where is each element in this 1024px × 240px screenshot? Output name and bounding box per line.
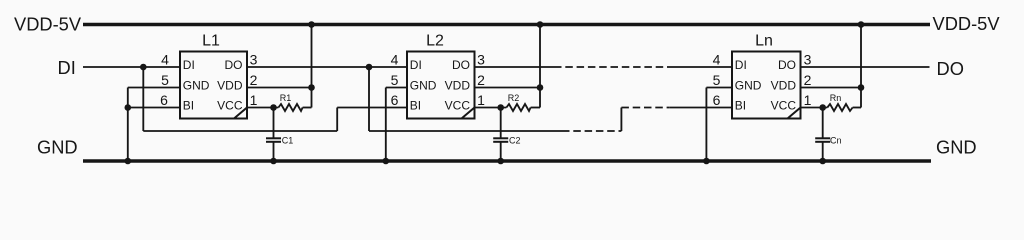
svg-text:VDD-5V: VDD-5V (933, 13, 1001, 34)
GND rail (bottom) (83, 159, 931, 162)
wire Rn to VDD drop (853, 107, 861, 109)
wire L1 pin1 VCC stub (247, 107, 278, 109)
svg-text:VCC: VCC (771, 99, 797, 113)
capacitor Cn (815, 138, 830, 142)
op IC Ln box (732, 52, 801, 119)
wire Ln pin5 drop to GND (705, 88, 707, 162)
node L1 GND rail junction (125, 158, 132, 165)
wire bridge L1 to L2 pin6 (337, 107, 407, 109)
svg-text:C1: C1 (282, 136, 294, 146)
resistor R1 (278, 104, 302, 111)
wire L2 VDD drop from rail (539, 25, 541, 108)
resistor Rn (827, 104, 852, 111)
wire Ln pin1 VCC stub (801, 107, 828, 109)
svg-text:DO: DO (778, 58, 796, 72)
wire bridge L2 DI to Ln BI (vertical) (368, 67, 370, 131)
wire R1 to VDD drop (303, 107, 312, 109)
svg-text:1: 1 (250, 92, 258, 108)
wire bridge L2 to Ln pin6 (670, 107, 732, 109)
wire L1 pin3 DO to L2 pin4 DI (247, 66, 407, 68)
wire L2 pin5 drop to GND (385, 88, 387, 162)
wire L1 VDD drop from rail (311, 25, 313, 108)
wire Ln pin5 GND stub (706, 87, 732, 89)
wire bridge L1 DI to L2 BI (lower horizontal) (143, 130, 337, 132)
svg-text:4: 4 (161, 52, 169, 68)
node Ln GND rail junction (703, 158, 710, 165)
svg-text:6: 6 (713, 92, 721, 108)
svg-text:1: 1 (804, 92, 812, 108)
wire DI input to L1 pin4 (83, 66, 180, 68)
wire Ln pin4 DI stub (668, 66, 732, 68)
capacitor C2 (493, 138, 508, 142)
node L1 VDD junction (308, 84, 315, 91)
capacitor C1 (266, 138, 281, 142)
svg-text:Cn: Cn (830, 136, 842, 146)
VDD-5V rail (top) (83, 23, 930, 26)
wire L1 pin5/pin6 drop to GND (127, 88, 129, 162)
svg-text:4: 4 (391, 52, 399, 68)
wire bridge L2 upper horizontal (dashed) (621, 107, 669, 109)
wire L1 pin5 GND stub (128, 87, 180, 89)
wire L2 pin5 GND stub (386, 87, 407, 89)
svg-text:C2: C2 (509, 136, 521, 146)
wire L2 DO to Ln DI (dashed) (554, 66, 668, 68)
node L2 GND rail junction (383, 158, 390, 165)
IC L2 chamfer mark (462, 108, 475, 119)
wire L1 pin2 VDD stub (247, 87, 312, 89)
node L2 VDD rail junction (537, 21, 544, 28)
svg-text:3: 3 (804, 52, 812, 68)
svg-text:5: 5 (161, 72, 169, 88)
wire R2 to VDD drop (531, 107, 540, 109)
node L2 VCC/C2 junction (497, 104, 504, 111)
wire L1 pin6 BI stub (128, 107, 180, 109)
svg-text:L2: L2 (426, 33, 444, 50)
svg-text:DO: DO (225, 58, 243, 72)
wire Ln pin3 DO output (801, 66, 930, 68)
svg-text:R1: R1 (280, 93, 292, 103)
node Ln VCC/Cn junction (819, 104, 826, 111)
node C1 GND rail junction (270, 158, 277, 165)
svg-text:VCC: VCC (445, 99, 471, 113)
svg-text:VDD-5V: VDD-5V (14, 14, 82, 35)
wire bridge L2 lower horizontal (solid) (369, 130, 562, 132)
svg-text:GND: GND (735, 79, 762, 93)
op IC L1 box (180, 52, 247, 119)
node L2 DI tap for bridge (366, 64, 373, 71)
IC Ln chamfer mark (788, 108, 801, 119)
node C2 GND rail junction (497, 158, 504, 165)
node L1 BI-GND junction (125, 104, 132, 111)
svg-text:VDD: VDD (771, 79, 797, 93)
svg-text:BI: BI (410, 99, 421, 113)
svg-text:L1: L1 (202, 33, 220, 50)
svg-text:VDD: VDD (217, 79, 243, 93)
wire bridge L1 DI to L2 BI (vertical) (142, 67, 144, 131)
svg-text:Ln: Ln (755, 33, 773, 50)
wire C1 lower lead (273, 142, 275, 161)
node DI tap for L1 bridge (140, 64, 147, 71)
wire bridge L2 lower horizontal (dashed) (562, 130, 621, 132)
wire L2 pin3 DO (solid) (475, 66, 555, 68)
svg-text:5: 5 (713, 72, 721, 88)
svg-text:Rn: Rn (830, 93, 842, 103)
svg-text:DO: DO (937, 58, 964, 79)
wire Cn lower lead (822, 142, 824, 161)
resistor R2 (506, 104, 530, 111)
node Ln VDD junction (858, 84, 865, 91)
svg-text:4: 4 (713, 52, 721, 68)
svg-text:2: 2 (250, 72, 258, 88)
svg-text:1: 1 (477, 92, 485, 108)
svg-text:6: 6 (160, 92, 168, 108)
svg-text:VDD: VDD (445, 79, 471, 93)
wire Cn upper lead (822, 108, 824, 139)
svg-text:DO: DO (452, 58, 470, 72)
svg-text:DI: DI (735, 58, 747, 72)
wire C2 lower lead (500, 142, 502, 161)
wire C2 upper lead (500, 108, 502, 139)
svg-text:2: 2 (804, 72, 812, 88)
wire Ln pin2 VDD stub (801, 87, 862, 89)
wire bridge L1 riser (336, 108, 338, 132)
wire bridge L2 riser (620, 108, 622, 132)
svg-text:3: 3 (250, 52, 258, 68)
wire L2 pin1 VCC stub (475, 107, 507, 109)
node L1 VDD rail junction (308, 21, 315, 28)
svg-text:R2: R2 (508, 93, 520, 103)
svg-text:GND: GND (936, 137, 977, 158)
svg-text:VCC: VCC (217, 99, 243, 113)
node L1 VCC/C1 junction (270, 104, 277, 111)
node Cn GND rail junction (819, 158, 826, 165)
svg-text:BI: BI (183, 99, 194, 113)
svg-text:GND: GND (410, 79, 437, 93)
svg-text:DI: DI (183, 58, 195, 72)
wire L2 pin2 VDD stub (475, 87, 541, 89)
node L2 VDD junction (537, 84, 544, 91)
svg-text:GND: GND (37, 137, 78, 158)
svg-text:5: 5 (391, 72, 399, 88)
op IC L2 box (407, 52, 475, 119)
svg-text:6: 6 (391, 92, 399, 108)
svg-text:BI: BI (735, 99, 746, 113)
node Ln VDD rail junction (858, 21, 865, 28)
svg-text:2: 2 (477, 72, 485, 88)
wire C1 upper lead (273, 108, 275, 139)
svg-text:GND: GND (183, 79, 210, 93)
wire Ln VDD drop from rail (860, 25, 862, 108)
svg-text:DI: DI (58, 57, 76, 78)
svg-text:DI: DI (410, 58, 422, 72)
svg-text:3: 3 (477, 52, 485, 68)
IC L1 chamfer mark (234, 108, 247, 119)
